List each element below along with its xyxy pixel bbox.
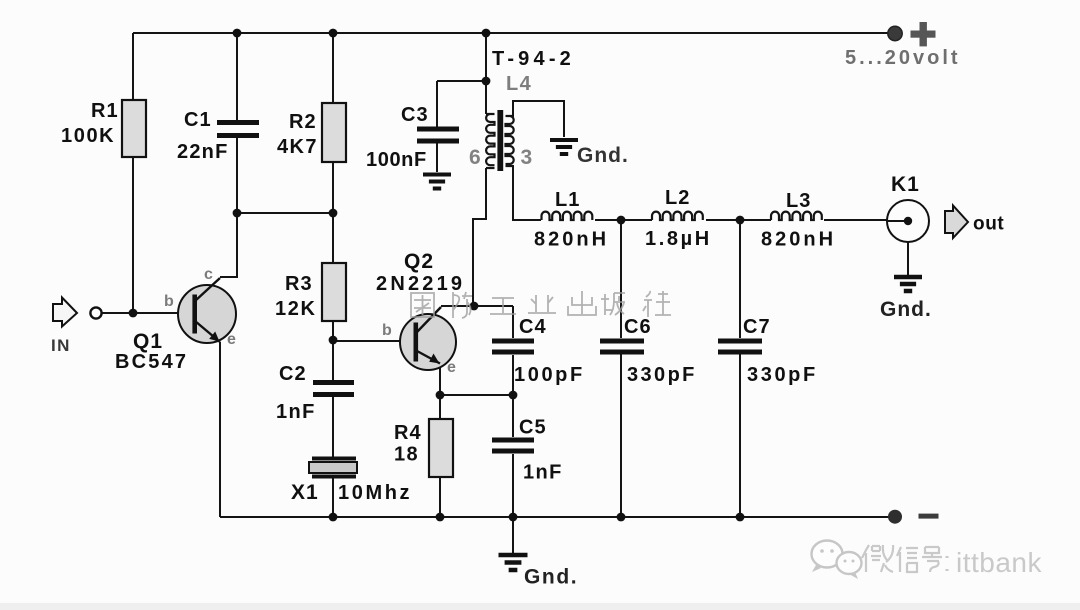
svg-text:1nF: 1nF	[523, 462, 563, 484]
svg-text:b: b	[382, 322, 393, 339]
svg-text:C4: C4	[519, 316, 547, 338]
svg-text:L4: L4	[506, 73, 532, 95]
svg-text:IN: IN	[51, 336, 71, 355]
svg-text:820nH: 820nH	[534, 229, 609, 251]
svg-text:L1: L1	[555, 189, 580, 211]
svg-text:Q2: Q2	[404, 250, 434, 273]
svg-text:330pF: 330pF	[627, 364, 697, 386]
svg-text:C2: C2	[279, 363, 307, 385]
svg-text:R3: R3	[285, 273, 313, 295]
svg-text:4K7: 4K7	[277, 136, 318, 158]
svg-text:R1: R1	[91, 100, 119, 122]
svg-text:C7: C7	[743, 316, 771, 338]
svg-text:b: b	[164, 293, 175, 310]
svg-text:C6: C6	[624, 316, 652, 338]
svg-text:Q1: Q1	[133, 330, 163, 353]
svg-text:330pF: 330pF	[747, 364, 818, 386]
svg-text:Gnd.: Gnd.	[577, 144, 629, 167]
svg-text:C1: C1	[184, 109, 212, 131]
svg-text:e: e	[447, 359, 457, 376]
svg-text:R2: R2	[289, 111, 317, 133]
svg-text:2N2219: 2N2219	[376, 273, 465, 295]
svg-text:Gnd.: Gnd.	[880, 298, 932, 321]
svg-text:100pF: 100pF	[514, 364, 585, 386]
svg-text:L3: L3	[786, 190, 811, 212]
svg-text:1nF: 1nF	[276, 401, 316, 423]
svg-text:5...20volt: 5...20volt	[845, 47, 961, 69]
svg-text:6: 6	[469, 146, 482, 169]
svg-text:X1: X1	[291, 481, 319, 504]
svg-text:C5: C5	[519, 417, 547, 439]
svg-text:100K: 100K	[61, 125, 115, 147]
svg-text:K1: K1	[891, 173, 920, 196]
svg-text:T-94-2: T-94-2	[492, 48, 575, 70]
svg-text:ittbank: ittbank	[956, 547, 1042, 578]
svg-text:18: 18	[394, 444, 419, 466]
svg-text:1.8µH: 1.8µH	[645, 228, 712, 250]
svg-text:BC547: BC547	[115, 351, 188, 373]
svg-text:10Mhz: 10Mhz	[338, 482, 412, 504]
svg-text:820nH: 820nH	[761, 229, 836, 251]
svg-text:c: c	[204, 266, 214, 283]
svg-text:100nF: 100nF	[366, 149, 427, 171]
svg-text:L2: L2	[665, 187, 690, 209]
svg-text:C3: C3	[401, 104, 429, 126]
svg-text:e: e	[227, 331, 237, 348]
svg-text:12K: 12K	[275, 298, 317, 320]
svg-text:3: 3	[521, 146, 534, 169]
svg-text:22nF: 22nF	[177, 141, 228, 163]
svg-text:out: out	[973, 214, 1004, 235]
svg-text:Gnd.: Gnd.	[524, 566, 578, 589]
svg-text:R4: R4	[394, 422, 422, 444]
